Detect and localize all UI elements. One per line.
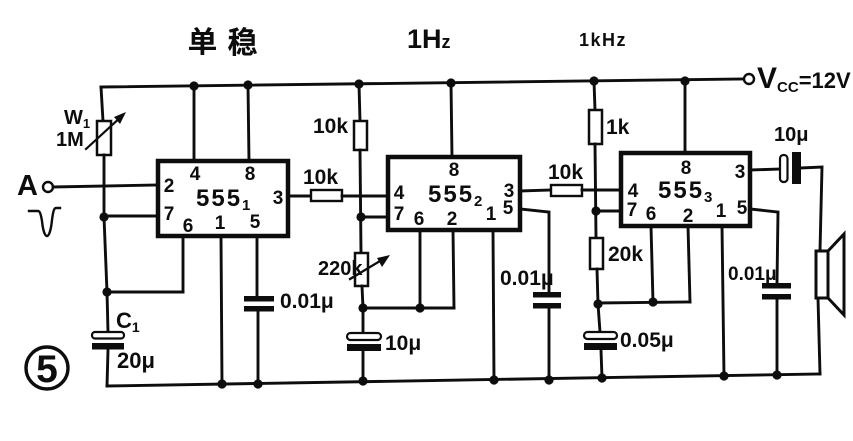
- figure number 5: [26, 347, 68, 391]
- wire node to pin6/pin2 of 555-3: [598, 302, 690, 303]
- svg-text:20μ: 20μ: [117, 348, 155, 373]
- svg-text:6: 6: [183, 216, 194, 237]
- svg-text:5: 5: [737, 198, 748, 219]
- svg-text:2: 2: [447, 209, 458, 230]
- junction timing node 555-2: [358, 303, 367, 312]
- svg-text:0.01μ: 0.01μ: [280, 290, 334, 313]
- svg-text:6: 6: [414, 209, 425, 230]
- junction ground 10u: [358, 376, 367, 385]
- svg-text:0.01μ: 0.01μ: [500, 267, 554, 290]
- resistor 10k coupling 1: [311, 190, 342, 201]
- terminal Vcc: [744, 74, 754, 84]
- wire pin3 of 555-1 to R 10k: [288, 195, 311, 198]
- resistor 1k: [589, 110, 602, 144]
- wire cap to ground: [548, 308, 551, 380]
- svg-text:10k: 10k: [313, 115, 348, 138]
- svg-text:7: 7: [627, 200, 638, 221]
- junction ground 0.05u: [597, 373, 606, 382]
- wire Vcc top rail: [101, 79, 744, 87]
- junction rail pin8-2: [446, 78, 455, 87]
- junction timing node 555-3: [593, 299, 602, 308]
- junction rail pin4: [189, 81, 198, 90]
- svg-text:3: 3: [273, 188, 284, 209]
- wire 220k to node: [362, 286, 363, 308]
- junction pin7 node of 555-2: [356, 212, 365, 221]
- wire 10u to ground: [362, 351, 365, 381]
- wire rail to pin8 of 555-3: [684, 81, 687, 153]
- wire left branch from Vcc rail down to W1: [101, 87, 103, 121]
- junction ground cap2: [544, 375, 553, 384]
- svg-text:220k: 220k: [318, 258, 363, 280]
- resistor 10k coupling 2: [551, 185, 582, 196]
- svg-text:1M: 1M: [56, 129, 84, 151]
- label 单稳: [189, 27, 257, 56]
- junction ground pin1-2: [489, 375, 498, 384]
- svg-text:1: 1: [215, 213, 226, 234]
- junction rail x594: [589, 76, 598, 85]
- wire 1k down crossing to pin7 node: [595, 144, 596, 238]
- junction pin6-3: [648, 297, 657, 306]
- svg-text:4: 4: [628, 181, 639, 202]
- wire to pin7 of 555-3: [596, 210, 621, 213]
- svg-text:0.01μ: 0.01μ: [728, 264, 777, 285]
- wire node to pin6 drop: [107, 291, 183, 294]
- svg-text:8: 8: [245, 164, 256, 185]
- svg-text:A: A: [17, 170, 38, 202]
- capacitor 10u output: [780, 155, 788, 182]
- capacitor 0.01u (pin5 of 555-2): [533, 292, 561, 298]
- waveform trigger symbol: [29, 208, 60, 236]
- op-amp U3 555-3 box: [621, 153, 750, 226]
- wire cap to ground: [257, 311, 260, 384]
- svg-text:5: 5: [503, 198, 514, 219]
- wire pin6 of 555-1 down: [182, 236, 185, 292]
- op-amp U2 555-2 box: [388, 157, 520, 230]
- wire pin1 of 555-3 to ground: [722, 226, 724, 376]
- junction rail pin8: [243, 80, 252, 89]
- wire down to C1 node: [104, 217, 107, 292]
- wire W1 bottom down: [103, 155, 106, 217]
- resistor 20k: [590, 238, 603, 269]
- svg-text:1: 1: [716, 201, 727, 222]
- wire to pin7 of 555-2: [361, 216, 388, 219]
- svg-text:10k: 10k: [548, 161, 583, 184]
- wire 20k to node: [597, 269, 598, 304]
- svg-text:0.05μ: 0.05μ: [620, 329, 674, 352]
- junction C1 node: [102, 287, 111, 296]
- wire pin1 of 555-1 to ground: [221, 236, 222, 384]
- junction ground cap1: [253, 379, 262, 388]
- wire pin2 of 555-2 down: [453, 230, 454, 308]
- wire cap to speaker: [801, 167, 822, 251]
- capacitor 0.01u (pin5 of 555-1): [244, 296, 274, 302]
- svg-text:5: 5: [250, 212, 261, 233]
- capacitor C1: [92, 332, 124, 339]
- potentiometer 220k: [355, 253, 368, 286]
- svg-text:1: 1: [486, 204, 497, 225]
- wire pin6 of 555-3 down: [651, 226, 653, 302]
- wire R to pin4 of 555-2: [342, 195, 388, 198]
- wire pin5 of 555-3 right and down: [750, 209, 778, 283]
- wire pin1 of 555-2 to ground: [493, 230, 494, 380]
- wire speaker to ground: [818, 298, 820, 374]
- svg-text:6: 6: [646, 204, 657, 225]
- wire pin5 of 555-1 down: [256, 236, 259, 296]
- wire 10k down crossing to pin7 node: [360, 150, 361, 253]
- wire pin3 of 555-2 to R 10k: [520, 190, 551, 191]
- svg-text:3: 3: [735, 162, 746, 183]
- wire C1 to ground rail: [107, 350, 108, 386]
- wire pin5 of 555-2 right and down: [520, 209, 549, 292]
- svg-text:1kHz: 1kHz: [579, 30, 627, 50]
- capacitor 10u (555-2 timing): [347, 333, 381, 340]
- junction pin6: [415, 303, 424, 312]
- junction ground pin1: [217, 379, 226, 388]
- wire ground bottom rail: [107, 374, 820, 386]
- svg-text:2: 2: [164, 176, 175, 197]
- junction ground pin1-3: [719, 371, 728, 380]
- wire node down to 10u: [362, 308, 365, 333]
- svg-text:7: 7: [164, 204, 175, 225]
- speaker: [816, 251, 828, 298]
- wire pin3 of 555-3 to 10u output cap: [750, 169, 781, 170]
- svg-text:20k: 20k: [608, 243, 643, 266]
- wire rail to pin8 of 555-2: [451, 83, 452, 157]
- svg-text:10μ: 10μ: [385, 332, 421, 355]
- junction rail x360: [354, 79, 363, 88]
- svg-text:1k: 1k: [606, 116, 630, 139]
- wire node down to C1: [107, 292, 108, 332]
- junction pin7 node of 555-3: [591, 206, 600, 215]
- wire rail down to vertical 10k: [359, 84, 360, 121]
- wire rail to pin8 of 555-1: [248, 85, 249, 161]
- junction ground cap3: [772, 370, 781, 379]
- wire A to pin2 of 555-1: [53, 185, 158, 187]
- wire pin2 of 555-3 down: [688, 226, 690, 302]
- capacitor 0.05u: [584, 332, 617, 339]
- svg-text:10k: 10k: [303, 166, 338, 189]
- svg-text:10μ: 10μ: [774, 124, 808, 146]
- wire pin6 of 555-2 down: [419, 230, 422, 308]
- wire 0.05u to ground: [601, 350, 602, 378]
- svg-text:7: 7: [394, 204, 405, 225]
- svg-text:2: 2: [683, 206, 694, 227]
- wire node to pin6/pin2 of 555-2: [363, 307, 454, 310]
- wire R to pin4 of 555-3: [582, 189, 621, 192]
- svg-text:4: 4: [190, 164, 201, 185]
- svg-text:VCC=12V: VCC=12V: [757, 62, 851, 96]
- wire rail down to 1k: [594, 81, 595, 110]
- capacitor 0.01u (pin5 of 555-3): [762, 283, 791, 289]
- svg-text:5: 5: [36, 348, 58, 391]
- wire rail to pin4 of 555-1: [193, 86, 196, 161]
- op-amp U1 555-1 box: [158, 161, 288, 236]
- potentiometer W1: [97, 121, 111, 155]
- wire node down to 0.05u: [598, 304, 600, 332]
- resistor 10k (Vcc to pin7 of 555-2): [354, 121, 367, 150]
- svg-text:4: 4: [394, 183, 405, 204]
- wire cap to ground: [776, 299, 779, 375]
- svg-text:8: 8: [449, 160, 460, 181]
- junction W1/pin7: [99, 212, 108, 221]
- wire to pin7 of 555-1: [104, 215, 158, 218]
- svg-text:8: 8: [681, 158, 692, 179]
- junction rail pin8-3: [680, 76, 689, 85]
